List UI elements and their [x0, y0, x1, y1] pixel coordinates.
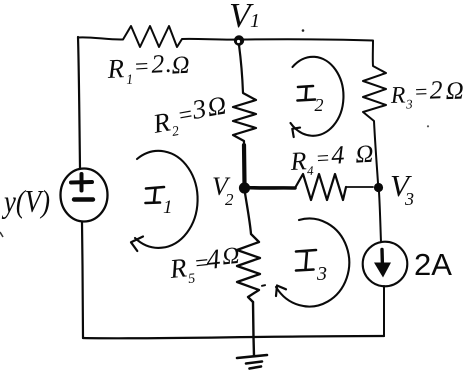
svg-text:y(V): y(V): [1, 183, 50, 219]
svg-text:2: 2: [315, 95, 324, 115]
svg-text:4: 4: [331, 140, 345, 170]
svg-text:3: 3: [404, 189, 414, 209]
svg-text:1: 1: [250, 10, 260, 32]
svg-text:Ω: Ω: [445, 77, 464, 105]
svg-text:2: 2: [225, 190, 234, 209]
svg-text:R: R: [389, 82, 406, 109]
svg-text:1: 1: [126, 73, 134, 88]
svg-text:Ω: Ω: [355, 141, 374, 169]
svg-text:3: 3: [316, 263, 327, 285]
svg-text:2: 2: [429, 75, 443, 104]
svg-text:R: R: [106, 53, 126, 84]
svg-text:R: R: [167, 252, 188, 284]
svg-text:2: 2: [151, 49, 165, 79]
svg-text:=: =: [413, 79, 429, 105]
svg-text:2A: 2A: [414, 247, 452, 282]
svg-text:3: 3: [405, 96, 414, 111]
svg-text:R: R: [289, 146, 307, 176]
svg-text:1: 1: [163, 197, 173, 218]
svg-text:Ω: Ω: [221, 243, 241, 271]
svg-text:4: 4: [307, 163, 315, 178]
svg-text:=: =: [133, 54, 151, 81]
svg-text:=: =: [315, 145, 331, 171]
svg-text:Ω: Ω: [171, 52, 190, 80]
